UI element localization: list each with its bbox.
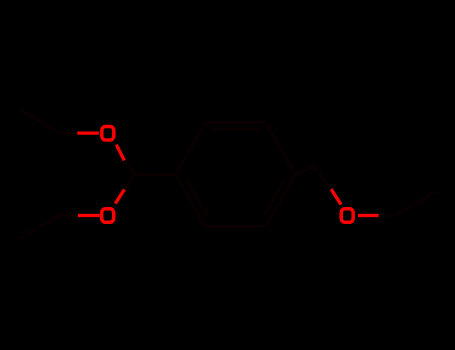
oxygen atom O1 (top left) xyxy=(102,126,114,140)
bond acetal CH to O2 (carbon half) xyxy=(122,175,134,196)
benzene double bond lower-left (inner line) xyxy=(186,179,207,215)
bond top ethyl CH2 to CH3 xyxy=(20,110,61,134)
bond O3 to benzylic CH2 (oxygen half, diagonal) xyxy=(331,189,341,204)
oxygen atom O2 (bottom left) xyxy=(102,209,114,223)
bond O2 to acetal CH (oxygen half, diagonal) xyxy=(115,190,124,204)
bond O2 to ethyl (oxygen half, horizontal) xyxy=(78,214,100,217)
bond ring C1 to acetal CH xyxy=(134,173,176,176)
bond right ethyl CH2 to CH3 xyxy=(395,192,436,216)
benzene double bond lower-right (inner line) xyxy=(264,179,285,215)
bond O3 to right ethyl CH2 (carbon half) xyxy=(371,214,395,217)
bond benzylic CH2 to O3 (carbon half) xyxy=(313,167,331,190)
benzene double bond top (inner line) xyxy=(212,128,260,131)
visible red oxygen bonds xyxy=(77,133,378,215)
bond O1 to ethyl (oxygen half, horizontal) xyxy=(77,131,99,134)
benzene ring xyxy=(176,123,296,227)
bond O1 to ethyl CH2 (carbon half) xyxy=(61,132,85,135)
bond O2 to ethyl CH2 (carbon half) xyxy=(61,214,85,217)
near-invisible carbon skeleton (very dark red on black, as in source) xyxy=(20,110,436,239)
bond bottom ethyl CH2 to CH3 xyxy=(20,215,61,239)
bond O3 to ethyl (oxygen half, horizontal) xyxy=(358,214,379,217)
bond O1 to acetal CH (oxygen half, diagonal) xyxy=(116,145,124,161)
bond ring C4 to benzylic CH2 xyxy=(296,167,314,175)
oxygen atom O3 (right) xyxy=(341,209,353,223)
bond acetal CH to O1 (carbon half) xyxy=(122,154,134,175)
